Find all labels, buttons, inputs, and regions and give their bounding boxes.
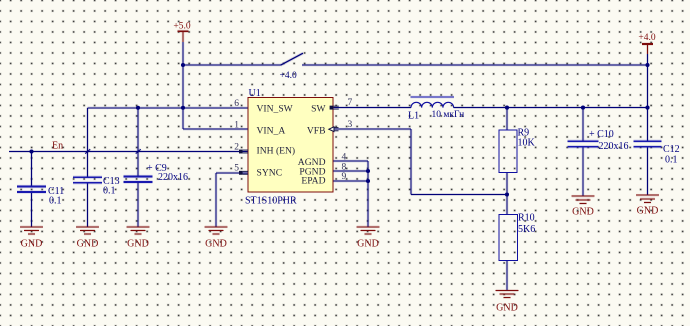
svg-text:GND: GND bbox=[127, 239, 149, 250]
svg-text:0.1: 0.1 bbox=[49, 196, 62, 207]
svg-text:VFB: VFB bbox=[307, 125, 326, 136]
svg-text:L1: L1 bbox=[408, 111, 419, 122]
svg-text:VIN_A: VIN_A bbox=[257, 125, 286, 136]
svg-text:2: 2 bbox=[234, 142, 239, 152]
svg-text:+5.0: +5.0 bbox=[173, 22, 190, 32]
svg-text:INH (EN): INH (EN) bbox=[257, 145, 296, 156]
svg-text:En: En bbox=[52, 141, 63, 152]
svg-text:SW: SW bbox=[311, 103, 326, 114]
svg-text:GND: GND bbox=[496, 302, 518, 313]
svg-text:C12: C12 bbox=[663, 144, 680, 155]
svg-text:10 мкГн: 10 мкГн bbox=[432, 110, 465, 120]
svg-text:GND: GND bbox=[357, 239, 379, 250]
svg-text:5K6: 5K6 bbox=[518, 224, 535, 235]
svg-text:1: 1 bbox=[234, 121, 239, 131]
svg-text:8: 8 bbox=[342, 163, 347, 173]
svg-text:GND: GND bbox=[77, 239, 99, 250]
svg-text:GND: GND bbox=[572, 207, 594, 218]
svg-text:+4.0: +4.0 bbox=[280, 71, 297, 81]
svg-text:10K: 10K bbox=[518, 137, 536, 148]
svg-text:3: 3 bbox=[348, 120, 353, 130]
svg-text:0.1: 0.1 bbox=[665, 154, 678, 165]
svg-text:SYNC: SYNC bbox=[257, 167, 283, 178]
svg-text:GND: GND bbox=[637, 206, 659, 217]
svg-text:9: 9 bbox=[342, 172, 347, 182]
svg-text:7: 7 bbox=[348, 98, 353, 108]
svg-text:+4.0: +4.0 bbox=[638, 33, 655, 43]
svg-text:4: 4 bbox=[342, 152, 347, 162]
svg-text:220x16: 220x16 bbox=[599, 141, 629, 152]
svg-text:U1: U1 bbox=[249, 88, 261, 99]
svg-text:+ C10: + C10 bbox=[589, 129, 614, 140]
svg-text:VIN_SW: VIN_SW bbox=[257, 103, 294, 114]
svg-text:R10: R10 bbox=[518, 213, 535, 224]
svg-text:220x16: 220x16 bbox=[158, 172, 188, 183]
svg-text:5: 5 bbox=[234, 164, 239, 174]
svg-text:GND: GND bbox=[21, 239, 43, 250]
svg-text:6: 6 bbox=[234, 99, 239, 109]
svg-text:GND: GND bbox=[205, 239, 227, 250]
svg-text:ST1S10PHR: ST1S10PHR bbox=[245, 195, 297, 206]
svg-text:0.1: 0.1 bbox=[103, 185, 116, 196]
svg-text:EPAD: EPAD bbox=[301, 175, 325, 186]
